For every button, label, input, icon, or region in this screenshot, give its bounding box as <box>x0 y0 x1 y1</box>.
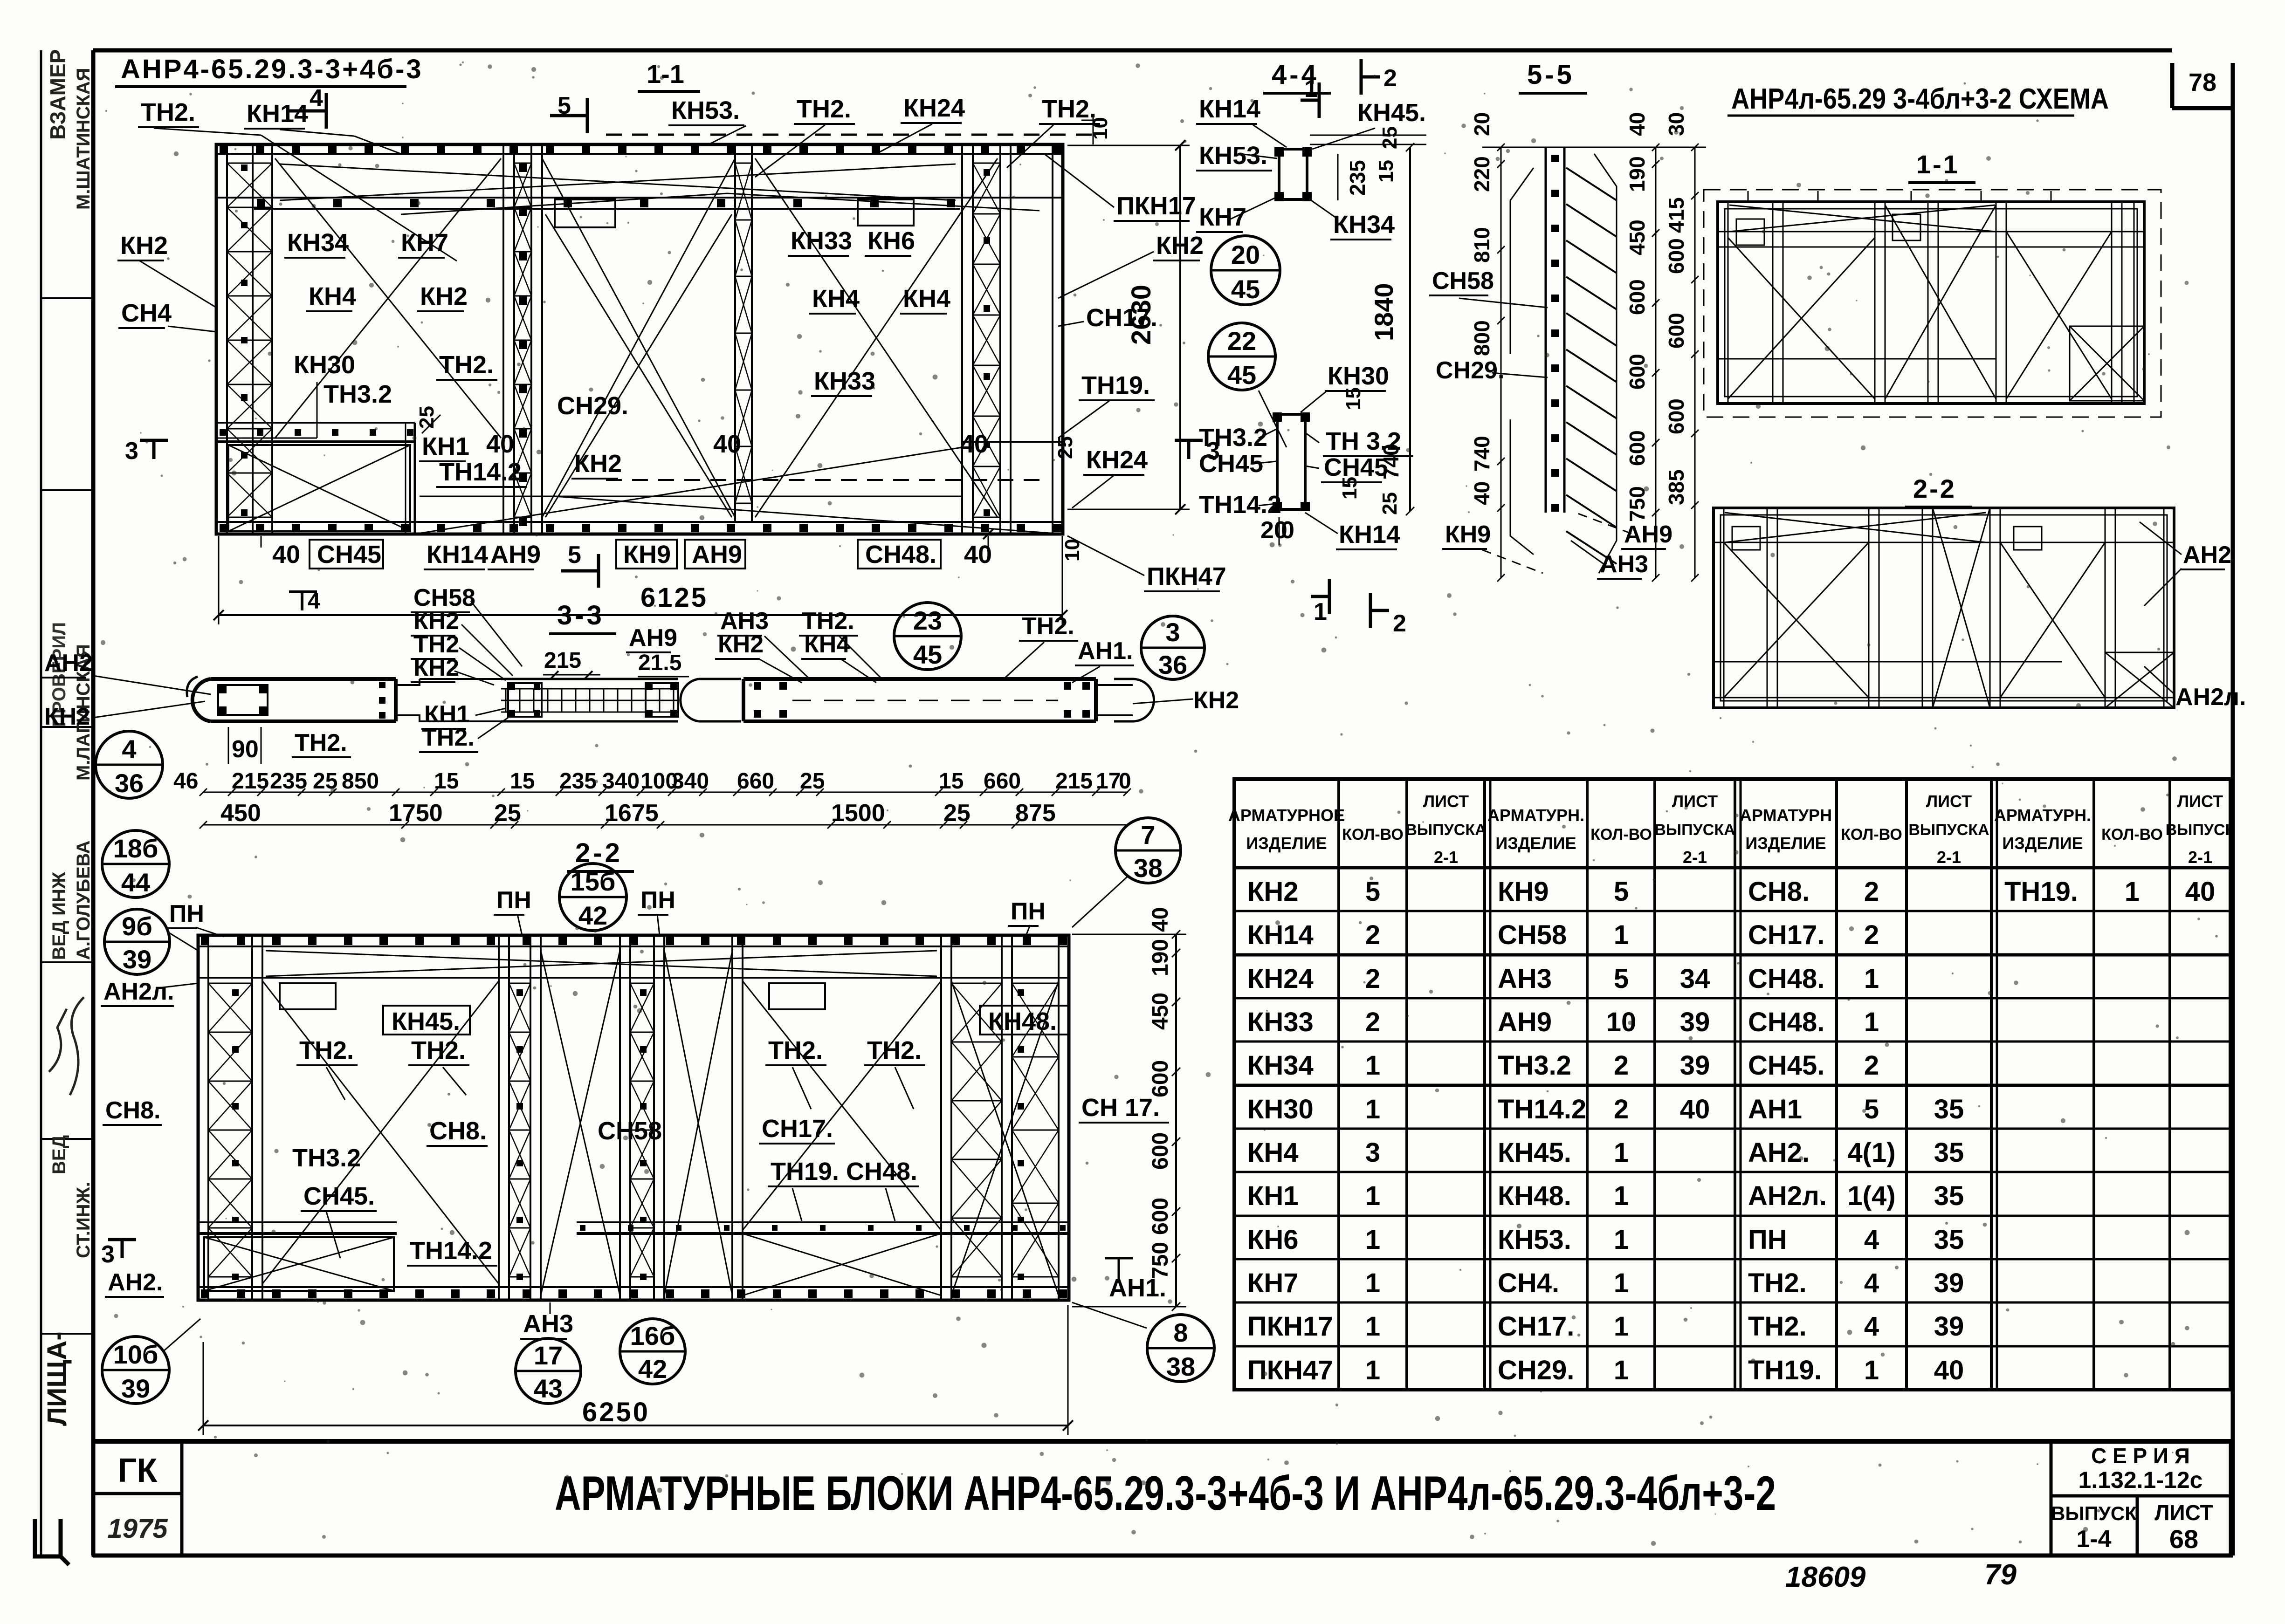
svg-text:ТН2.: ТН2. <box>768 1036 823 1064</box>
section 3-3 middle piece outline <box>364 679 678 721</box>
svg-text:1-4: 1-4 <box>2076 1526 2111 1553</box>
svg-text:2630: 2630 <box>1126 285 1156 345</box>
section 5-5 hatch lines <box>1566 168 1617 200</box>
svg-text:СН58: СН58 <box>1432 267 1494 295</box>
svg-text:35: 35 <box>1934 1137 1964 1168</box>
svg-text:КН48.: КН48. <box>1498 1181 1571 1211</box>
svg-text:ТН14.2: ТН14.2 <box>439 458 522 486</box>
left margin handwritten Ц mark <box>35 1519 69 1565</box>
svg-text:1(4): 1(4) <box>1847 1181 1895 1211</box>
svg-text:КН14: КН14 <box>427 541 488 569</box>
svg-text:2: 2 <box>1864 1050 1879 1081</box>
section 3-3 left bar outline <box>211 679 396 721</box>
svg-text:5: 5 <box>568 541 581 569</box>
svg-text:М.ШАТИНСКАЯ: М.ШАТИНСКАЯ <box>73 68 94 210</box>
drawing D dimension 6250 <box>203 1425 1068 1426</box>
svg-text:45: 45 <box>913 640 942 669</box>
svg-text:СН29.: СН29. <box>557 392 628 420</box>
section 3-3 circle 3/36 <box>1141 616 1204 679</box>
svg-text:2-1: 2-1 <box>2188 848 2212 867</box>
svg-text:2: 2 <box>1393 610 1406 637</box>
drawing A step band left horizontal pair <box>216 422 415 424</box>
svg-text:2: 2 <box>1365 920 1380 950</box>
svg-text:39: 39 <box>1680 1050 1710 1081</box>
svg-text:АНР4-65.29.3-3+4б-3: АНР4-65.29.3-3+4б-3 <box>121 54 423 84</box>
section 4-4 upper leaders <box>1253 125 1287 147</box>
drawing A dimension 6125 <box>219 614 1062 616</box>
svg-text:КН7: КН7 <box>401 229 448 257</box>
drawing A right edge inner vertical <box>1052 144 1053 534</box>
drawing A section mark 3 right <box>1187 440 1191 459</box>
title block ЛИСТ box <box>2137 1496 2230 1555</box>
svg-text:40: 40 <box>960 430 988 458</box>
svg-text:600: 600 <box>1625 354 1649 390</box>
svg-text:КН24: КН24 <box>1247 964 1314 994</box>
drawing D X far right <box>951 981 1059 1295</box>
svg-text:КН2: КН2 <box>718 631 764 658</box>
drawing A central column rungs <box>514 163 531 164</box>
svg-text:КН2: КН2 <box>120 232 168 260</box>
svg-text:КН30: КН30 <box>1247 1094 1314 1124</box>
svg-text:КН53.: КН53. <box>1498 1225 1571 1255</box>
svg-text:1: 1 <box>1365 1181 1380 1211</box>
svg-text:1: 1 <box>1304 75 1318 103</box>
svg-text:ТН2.: ТН2. <box>295 729 347 756</box>
drawing A step band dots <box>220 429 226 436</box>
svg-text:15б: 15б <box>571 867 616 896</box>
svg-text:ВЗАМЕР: ВЗАМЕР <box>46 49 70 140</box>
svg-text:АН2л.: АН2л. <box>103 978 174 1005</box>
svg-text:СН48.: СН48. <box>865 541 936 569</box>
schema 1-1 small ticks <box>1748 191 1749 202</box>
svg-text:1975: 1975 <box>107 1514 168 1544</box>
drawing A section mark 4 top <box>289 110 326 113</box>
left margin signature squiggle 2 <box>49 1009 67 1072</box>
svg-text:ИЗДЕЛИЕ: ИЗДЕЛИЕ <box>1495 834 1576 853</box>
svg-text:КН4: КН4 <box>309 282 356 310</box>
svg-text:190: 190 <box>1625 156 1649 192</box>
svg-text:ЛИСТ: ЛИСТ <box>2154 1501 2213 1525</box>
drawing D vertical bands <box>197 935 199 1300</box>
svg-text:2: 2 <box>1365 964 1380 994</box>
svg-text:КН48.: КН48. <box>988 1007 1057 1035</box>
section 4-4 circle 20/45 <box>1211 236 1280 305</box>
svg-text:235: 235 <box>270 769 307 794</box>
svg-text:79: 79 <box>1984 1559 2017 1591</box>
svg-text:1-1: 1-1 <box>1916 150 1960 179</box>
parts table header bottom line <box>1234 866 2230 870</box>
svg-text:20: 20 <box>1231 240 1260 269</box>
svg-text:5: 5 <box>1614 877 1629 907</box>
title block СЕРИЯ box <box>2051 1441 2230 1496</box>
svg-text:15: 15 <box>1342 387 1365 410</box>
svg-text:КОЛ-ВО: КОЛ-ВО <box>2101 826 2163 843</box>
svg-text:39: 39 <box>123 945 151 974</box>
svg-text:6125: 6125 <box>640 582 708 613</box>
svg-text:КН24: КН24 <box>1086 446 1148 474</box>
section 4-4 mark 2 bottom <box>1370 609 1389 612</box>
svg-text:340: 340 <box>602 769 640 794</box>
svg-text:ВЫПУСК: ВЫПУСК <box>2166 821 2235 839</box>
svg-text:ВЫПУСК: ВЫПУСК <box>2051 1502 2137 1524</box>
svg-text:215: 215 <box>232 769 269 794</box>
svg-text:КН2: КН2 <box>574 450 622 478</box>
drawing A left column vertical pair 1 <box>215 144 218 534</box>
left margin signature squiggle 1 <box>70 997 84 1095</box>
svg-text:ЛИСТ: ЛИСТ <box>1926 792 1972 811</box>
svg-text:ПН: ПН <box>496 887 531 914</box>
svg-text:43: 43 <box>534 1374 563 1403</box>
svg-text:СН45.: СН45. <box>1748 1050 1824 1081</box>
svg-text:1: 1 <box>1614 1268 1629 1298</box>
drawing A mid column rungs <box>735 163 752 164</box>
svg-text:КН34: КН34 <box>1247 1050 1314 1081</box>
drawing D circle 16б/42 <box>620 1319 685 1384</box>
svg-text:4: 4 <box>122 734 136 764</box>
svg-text:АН3: АН3 <box>1600 551 1648 578</box>
svg-text:КН9: КН9 <box>623 541 671 569</box>
left margin tick marks <box>41 297 93 299</box>
drawing D left margin circle 18б/44 <box>102 830 169 898</box>
svg-text:А.ГОЛУБЕВА: А.ГОЛУБЕВА <box>73 841 94 960</box>
drawing D X right panel upper <box>743 981 941 1230</box>
svg-text:ПН: ПН <box>640 887 675 914</box>
section 3-3 mark 4 above <box>301 592 303 610</box>
drawing A step verticals <box>414 423 416 534</box>
schema 1-1 main rect <box>1718 202 2144 404</box>
svg-text:21.5: 21.5 <box>638 651 681 675</box>
drawing D circle 17/43 <box>516 1338 581 1404</box>
svg-text:ПН: ПН <box>1011 898 1046 925</box>
section 3-3 right bar dots <box>754 682 761 690</box>
section 3-3 circle 4/36 <box>96 731 163 798</box>
svg-text:5: 5 <box>557 92 571 119</box>
section 3-3 left bar end dots <box>379 682 385 688</box>
svg-text:46: 46 <box>173 769 198 794</box>
svg-text:25: 25 <box>1378 492 1401 515</box>
svg-text:СН29.: СН29. <box>1436 357 1504 384</box>
svg-text:25: 25 <box>494 800 521 827</box>
drawing A upper dots row <box>257 199 265 207</box>
drawing A mid column vertical pair <box>734 144 736 522</box>
svg-text:2: 2 <box>1614 1094 1629 1124</box>
svg-text:СН45: СН45 <box>317 541 381 569</box>
svg-text:800: 800 <box>1470 320 1494 356</box>
svg-text:КН4: КН4 <box>1247 1137 1299 1168</box>
svg-text:4: 4 <box>1864 1268 1879 1298</box>
svg-text:ТН2.: ТН2. <box>1022 613 1074 640</box>
svg-text:СН17.: СН17. <box>1748 920 1824 950</box>
svg-text:4: 4 <box>308 589 320 614</box>
drawing A lower mid horizontal <box>420 496 962 497</box>
svg-text:АРМАТУРНОЕ: АРМАТУРНОЕ <box>1228 806 1345 825</box>
svg-text:ТН2.: ТН2. <box>411 1036 466 1064</box>
page number box 78 <box>2170 63 2175 108</box>
svg-text:38: 38 <box>1166 1352 1195 1381</box>
svg-text:5: 5 <box>1864 1094 1879 1124</box>
svg-text:КН2: КН2 <box>1247 877 1299 907</box>
svg-text:КН24: КН24 <box>903 94 965 122</box>
svg-text:450: 450 <box>220 800 261 827</box>
drawing A outer rectangle <box>216 144 1063 534</box>
section 3-3 right small piece <box>681 679 741 721</box>
drawing A X mid panel full <box>542 158 735 517</box>
svg-text:ТН2.: ТН2. <box>797 95 851 123</box>
drawing D band rungs mid1 <box>509 983 530 984</box>
svg-text:ТН2.: ТН2. <box>141 98 195 126</box>
sheet frame border <box>93 48 2172 53</box>
svg-text:660: 660 <box>737 769 774 794</box>
svg-text:СН 17.: СН 17. <box>1081 1094 1160 1122</box>
svg-text:1: 1 <box>1365 1094 1380 1124</box>
drawing A inner hook square top-mid <box>555 199 615 227</box>
section 5-5 left profile line <box>1510 168 1534 555</box>
svg-text:1: 1 <box>1365 1225 1380 1255</box>
svg-text:АН9: АН9 <box>629 624 677 651</box>
svg-text:660: 660 <box>984 769 1021 794</box>
svg-text:АН2.: АН2. <box>1748 1137 1810 1168</box>
svg-text:875: 875 <box>1015 800 1056 827</box>
drawing A dashed top rebar line <box>606 134 1093 136</box>
svg-text:АН9: АН9 <box>490 541 541 569</box>
drawing D circle 15б/42 <box>559 863 626 931</box>
drawing D hook square left <box>280 983 336 1009</box>
svg-text:ВЫПУСКА: ВЫПУСКА <box>1654 821 1735 839</box>
drawing A top chord dots <box>220 145 228 153</box>
drawing D leaders inner labels <box>326 1067 345 1100</box>
svg-text:КН4: КН4 <box>812 285 860 313</box>
svg-text:20: 20 <box>1470 112 1494 136</box>
svg-text:15: 15 <box>1375 160 1397 183</box>
svg-text:КН14: КН14 <box>1247 920 1314 950</box>
svg-text:АРМАТУРН.: АРМАТУРН. <box>1487 806 1584 825</box>
svg-text:КОЛ-ВО: КОЛ-ВО <box>1590 826 1652 843</box>
drawing D bottom chords <box>198 1286 1069 1288</box>
drawing A right column vertical pair 2 <box>999 144 1001 534</box>
svg-text:ИЗДЕЛИЕ: ИЗДЕЛИЕ <box>1745 834 1826 853</box>
svg-text:600: 600 <box>1148 1132 1173 1170</box>
svg-text:600: 600 <box>1664 238 1688 274</box>
svg-text:ТН2.: ТН2. <box>1042 95 1096 123</box>
svg-text:АН9: АН9 <box>1498 1007 1552 1037</box>
svg-text:1: 1 <box>1365 1268 1380 1298</box>
svg-text:ТН3.2: ТН3.2 <box>1498 1050 1571 1081</box>
svg-text:215: 215 <box>1055 769 1093 794</box>
drawing D band rungs mid2 <box>630 983 654 984</box>
section 4-4 mark 1 top <box>1301 99 1319 102</box>
svg-text:0: 0 <box>1281 517 1294 544</box>
svg-text:КН33: КН33 <box>1247 1007 1314 1037</box>
svg-text:35: 35 <box>1934 1094 1964 1124</box>
svg-text:600: 600 <box>1625 279 1649 315</box>
svg-text:38: 38 <box>1134 853 1163 883</box>
section 4-4 top dim lines <box>1310 135 1426 136</box>
section 4-4 mark 1 bottom <box>1311 595 1329 598</box>
svg-text:215: 215 <box>544 648 581 673</box>
drawing A bottom-left sub panel diagonals <box>228 445 410 531</box>
drawing A bottom section mark 5 <box>561 569 599 573</box>
svg-text:КН4: КН4 <box>903 285 950 313</box>
svg-text:1-1: 1-1 <box>647 59 684 89</box>
svg-text:АНР4л-65.29 3-4бл+3-2 СХЕМА: АНР4л-65.29 3-4бл+3-2 СХЕМА <box>1731 83 2109 115</box>
svg-text:18609: 18609 <box>1785 1561 1866 1593</box>
svg-text:СН45: СН45 <box>1199 450 1263 478</box>
svg-text:ПКН17: ПКН17 <box>1247 1311 1333 1342</box>
drawing D second top line <box>198 977 1069 979</box>
svg-text:СН8.: СН8. <box>1748 877 1810 907</box>
drawing A big X left panel <box>275 158 501 438</box>
svg-text:4(1): 4(1) <box>1847 1137 1895 1168</box>
schema 1-1 horizontals <box>1718 231 2144 233</box>
svg-text:740: 740 <box>1379 444 1403 480</box>
drawing A central column verticals <box>502 144 504 534</box>
svg-text:42: 42 <box>578 901 607 930</box>
svg-text:КН9: КН9 <box>1445 521 1491 548</box>
svg-text:ПКН47: ПКН47 <box>1247 1355 1333 1385</box>
schema 1-1 inner rect <box>1725 209 2137 397</box>
svg-text:КН53.: КН53. <box>1199 142 1267 170</box>
svg-text:235: 235 <box>559 769 597 794</box>
svg-text:45: 45 <box>1227 360 1256 390</box>
svg-text:7: 7 <box>1141 820 1155 850</box>
title block ВЫПУСК box <box>2051 1496 2137 1555</box>
svg-text:КН2: КН2 <box>413 654 459 681</box>
section 3-3 dim row 2 line <box>203 824 1128 826</box>
section 4-4 circle 22/45 <box>1208 323 1275 390</box>
drawing D band rungs left <box>208 983 252 984</box>
drawing D X right panel lower <box>743 1233 941 1295</box>
svg-text:35: 35 <box>1934 1181 1964 1211</box>
drawing D left sub panel <box>204 1237 394 1291</box>
section 3-3 left bar inner rect <box>218 685 268 715</box>
svg-text:39: 39 <box>1934 1311 1964 1342</box>
svg-text:40: 40 <box>1470 481 1494 505</box>
drawing D bottom dots <box>201 1289 209 1298</box>
drawing A leader КН14 top <box>280 130 354 136</box>
svg-text:40: 40 <box>1625 112 1649 136</box>
svg-text:8: 8 <box>1173 1318 1188 1347</box>
svg-text:АРМАТУРНЫЕ БЛОКИ АНР4-65.29.3-: АРМАТУРНЫЕ БЛОКИ АНР4-65.29.3-3+4б-3 И А… <box>555 1466 1776 1521</box>
svg-text:22: 22 <box>1227 326 1256 356</box>
section 3-3 leader lines right labels <box>764 636 811 680</box>
svg-text:ПКН47: ПКН47 <box>1147 562 1226 590</box>
section 5-5 middle dim line <box>1655 147 1657 578</box>
drawing D band rungs far right <box>1012 983 1059 984</box>
svg-text:ВЕД: ВЕД <box>49 1135 69 1174</box>
svg-text:40: 40 <box>2185 877 2216 907</box>
svg-text:42: 42 <box>638 1354 667 1384</box>
svg-text:45: 45 <box>1231 274 1260 304</box>
svg-text:ТН2.: ТН2. <box>422 724 475 751</box>
svg-text:СН17.: СН17. <box>762 1115 833 1143</box>
svg-text:АН2: АН2 <box>44 650 93 677</box>
schema 2-2 main rect <box>1714 508 2174 708</box>
svg-text:КН53.: КН53. <box>671 96 740 124</box>
svg-text:КН30: КН30 <box>294 351 355 379</box>
svg-text:КОЛ-ВО: КОЛ-ВО <box>1841 826 1902 843</box>
parts table vertical lines <box>1337 779 1340 1390</box>
svg-text:АН9: АН9 <box>692 541 742 569</box>
drawing A upper rebar line 2 <box>254 208 960 210</box>
svg-text:КН34: КН34 <box>287 229 349 257</box>
svg-text:КН6: КН6 <box>1247 1225 1299 1255</box>
drawing D left step band <box>198 1221 397 1223</box>
schema 1-1 vertical pairs <box>1728 202 1729 404</box>
svg-text:40: 40 <box>1148 907 1173 932</box>
svg-text:АРМАТУРН: АРМАТУРН <box>1740 806 1832 825</box>
svg-text:ТН2.: ТН2. <box>867 1036 922 1064</box>
svg-text:850: 850 <box>342 769 379 794</box>
svg-text:КН30: КН30 <box>1328 362 1389 390</box>
svg-text:СН48.: СН48. <box>846 1158 917 1185</box>
svg-text:40: 40 <box>713 430 741 458</box>
svg-text:СН8.: СН8. <box>105 1097 160 1124</box>
svg-text:25: 25 <box>943 800 970 827</box>
svg-text:25: 25 <box>800 769 825 794</box>
svg-text:1: 1 <box>1365 1355 1380 1385</box>
svg-text:5: 5 <box>1365 877 1380 907</box>
svg-text:3: 3 <box>1365 1137 1380 1168</box>
drawing D top chord dots <box>201 937 209 945</box>
svg-text:17: 17 <box>1096 769 1121 794</box>
svg-text:АН9: АН9 <box>1624 521 1672 548</box>
svg-text:СН4: СН4 <box>121 299 172 327</box>
svg-text:2: 2 <box>1383 65 1397 92</box>
svg-text:ТН19.: ТН19. <box>771 1158 839 1185</box>
drawing A X mid-lower panel <box>545 214 732 517</box>
svg-text:36: 36 <box>115 768 144 798</box>
svg-text:АН2л.: АН2л. <box>1748 1181 1827 1211</box>
svg-text:АН3: АН3 <box>1498 964 1552 994</box>
svg-text:КОЛ-ВО: КОЛ-ВО <box>1342 826 1404 843</box>
svg-text:4: 4 <box>1864 1311 1879 1342</box>
svg-text:СН29.: СН29. <box>1498 1355 1574 1385</box>
svg-text:600: 600 <box>1664 398 1688 434</box>
title block ГК box <box>93 1441 182 1494</box>
svg-text:1750: 1750 <box>389 800 443 827</box>
svg-text:КН33: КН33 <box>814 367 875 395</box>
svg-text:ЛИСТ: ЛИСТ <box>1423 792 1469 811</box>
svg-text:1500: 1500 <box>831 800 885 827</box>
svg-text:750: 750 <box>1625 486 1649 522</box>
schema 2-2 inner squares <box>1732 527 1760 550</box>
svg-text:220: 220 <box>1470 156 1494 192</box>
svg-text:КН45.: КН45. <box>1498 1137 1571 1168</box>
drawing A section mark 5 top <box>550 114 587 117</box>
svg-text:15: 15 <box>1338 477 1361 500</box>
svg-text:15: 15 <box>434 769 459 794</box>
svg-text:АН1.: АН1. <box>1109 1274 1166 1302</box>
svg-text:ПКН17: ПКН17 <box>1116 192 1196 220</box>
svg-text:КН6: КН6 <box>867 227 915 255</box>
svg-text:18б: 18б <box>113 834 158 863</box>
svg-text:3: 3 <box>101 1241 115 1268</box>
svg-text:44: 44 <box>121 868 150 897</box>
svg-text:1: 1 <box>1365 1050 1380 1081</box>
svg-text:СН48.: СН48. <box>1748 964 1824 994</box>
svg-text:1: 1 <box>1864 1355 1879 1385</box>
drawing A big X right panel <box>755 158 998 517</box>
svg-text:4: 4 <box>1864 1225 1879 1255</box>
svg-text:КН7: КН7 <box>1247 1268 1299 1298</box>
svg-text:ВЫПУСКА: ВЫПУСКА <box>1908 821 1989 839</box>
svg-text:450: 450 <box>1148 993 1173 1030</box>
svg-text:0: 0 <box>1119 769 1131 794</box>
svg-text:ТН2.: ТН2. <box>439 351 494 379</box>
svg-text:СН58: СН58 <box>598 1117 662 1145</box>
svg-text:3-3: 3-3 <box>557 600 605 630</box>
left margin ruled line <box>40 50 42 1555</box>
